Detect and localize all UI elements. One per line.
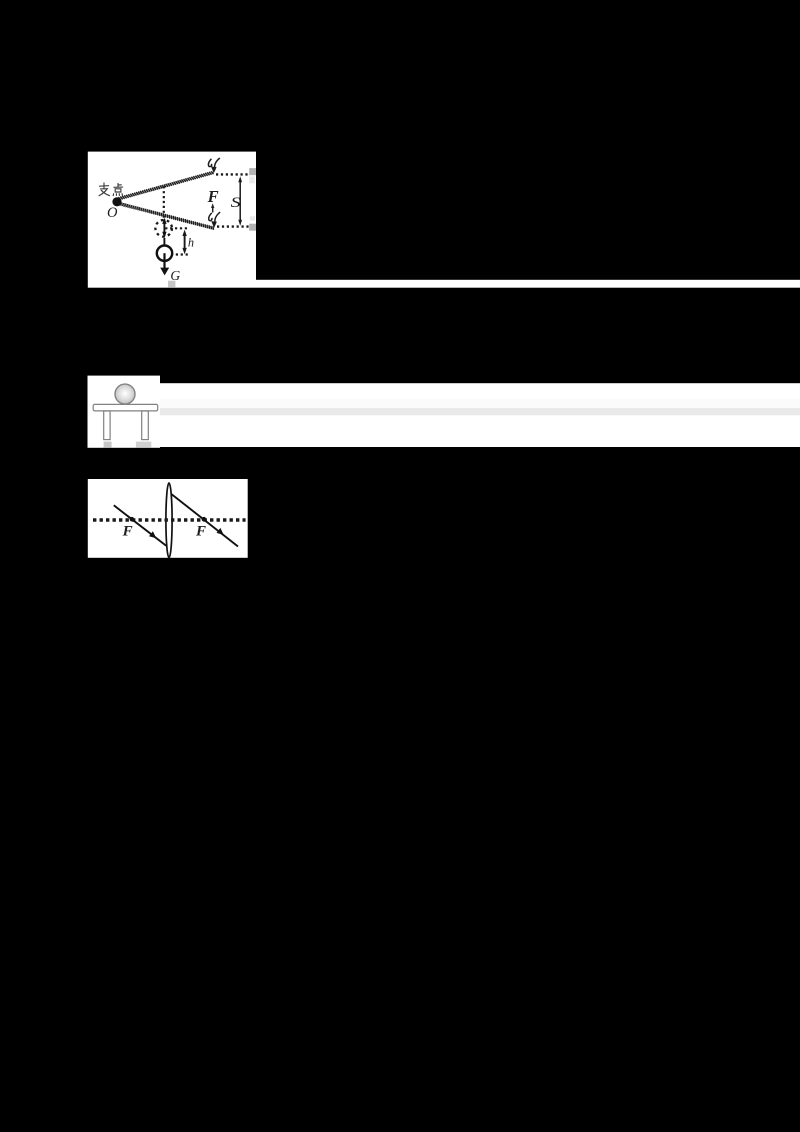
svg-text:S: S [231, 195, 241, 211]
svg-text:F: F [122, 523, 133, 539]
svg-text:O: O [107, 205, 118, 221]
svg-text:F: F [207, 187, 219, 206]
svg-text:h: h [188, 235, 194, 249]
svg-text:G: G [170, 268, 180, 283]
svg-text:F: F [195, 524, 206, 540]
